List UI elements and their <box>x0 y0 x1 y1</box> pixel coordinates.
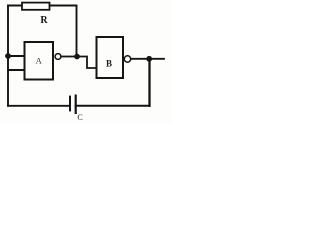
wire: lower input stub into gate A <box>8 69 25 71</box>
capacitor C right plate <box>75 95 77 115</box>
wire: jog from middle node down into gate B input <box>77 57 97 69</box>
wire: left vertical rail <box>7 6 9 106</box>
svg-text:C: C <box>77 113 82 122</box>
wire: bottom-left horizontal to capacitor left plate <box>8 105 70 107</box>
wire: gate A output to middle node <box>61 56 77 58</box>
gate B output inversion bubble <box>124 56 130 62</box>
wire: upper input stub into gate A <box>8 55 25 57</box>
wire: vertical drop from resistor right end to node at A output <box>76 6 78 57</box>
inverter gate B body <box>97 37 124 78</box>
wire: bottom-right horizontal to capacitor right plate <box>76 105 150 107</box>
junction node at A output / R feedback <box>74 54 80 60</box>
wire: gate B output line to right terminal <box>131 58 164 60</box>
svg-text:R: R <box>40 15 48 26</box>
resistor R <box>22 3 50 10</box>
gate A output inversion bubble <box>55 54 61 60</box>
capacitor C left plate <box>69 96 71 112</box>
wire: right vertical from output node down <box>148 59 150 106</box>
wire: top horizontal from left rail to right drop <box>8 5 77 7</box>
inverter gate A body <box>25 42 54 80</box>
junction node on left rail at A input <box>5 53 11 59</box>
svg-text:B: B <box>106 59 112 69</box>
junction node on output line <box>146 56 152 62</box>
svg-text:A: A <box>36 56 43 66</box>
